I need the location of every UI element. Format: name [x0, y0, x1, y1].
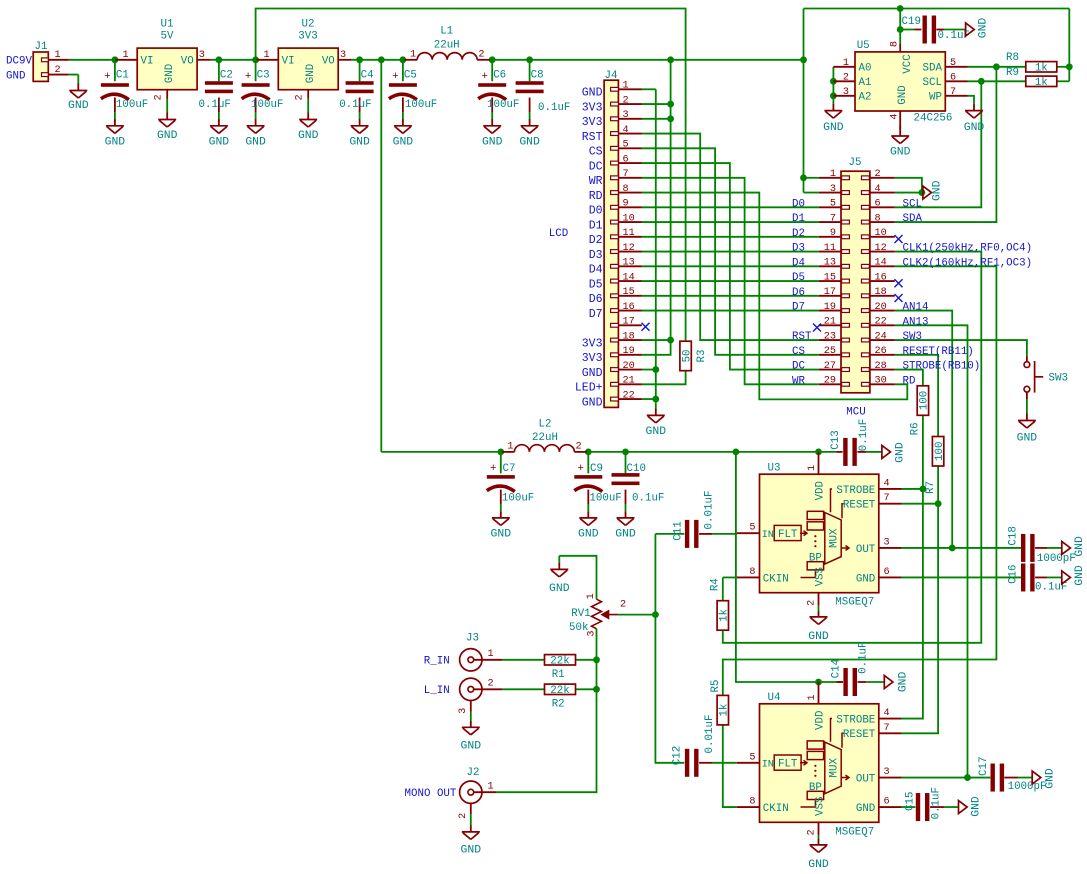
- pin C8.2: [529, 98, 531, 113]
- wire 5V to R3 top: [256, 9, 686, 343]
- wire J1.1 to U1.VI: [69, 59, 116, 61]
- pin pad J4.2: [611, 102, 619, 106]
- pin pad J5.7: [842, 220, 850, 224]
- svg-text:3V3: 3V3: [582, 116, 603, 129]
- pin J5.13: [819, 265, 841, 267]
- potentiometer RV1: [592, 599, 602, 629]
- svg-text:WR: WR: [589, 175, 603, 188]
- svg-text:100uF: 100uF: [487, 99, 519, 111]
- svg-text:GND: GND: [461, 741, 482, 753]
- pin pad J5.11: [842, 250, 850, 254]
- pin J5.26: [870, 354, 895, 356]
- pin pad J5.3: [842, 191, 850, 195]
- svg-text:RD: RD: [903, 375, 916, 387]
- capacitor C17: [991, 764, 995, 792]
- junction: [667, 101, 674, 108]
- svg-text:16: 16: [875, 272, 887, 283]
- pin J4.13: [618, 265, 642, 267]
- ground C8: [521, 126, 539, 134]
- svg-text:GND: GND: [157, 130, 178, 142]
- svg-text:VI: VI: [141, 56, 154, 68]
- svg-text:1: 1: [263, 50, 269, 61]
- svg-text:GND: GND: [615, 529, 636, 541]
- junction: [400, 56, 407, 63]
- pin J4.16: [618, 310, 642, 312]
- svg-text:GND: GND: [1074, 536, 1086, 557]
- pin pad J5.28: [862, 368, 870, 372]
- svg-text:1k: 1k: [719, 609, 731, 622]
- pin pad J5.18: [862, 294, 870, 298]
- junction: [216, 56, 223, 63]
- connector J3: [460, 649, 482, 671]
- pin J5.9: [819, 236, 841, 238]
- pin C4.2: [359, 98, 361, 113]
- pin pad J4.13: [611, 264, 619, 268]
- pin J4.8: [618, 192, 642, 194]
- junction: [252, 56, 259, 63]
- pin C19.2: [936, 29, 944, 31]
- pin J5.19: [819, 310, 841, 312]
- svg-text:19: 19: [623, 346, 635, 357]
- wire DC J4.6 to J5.27: [642, 163, 819, 369]
- pin J5.16: [870, 280, 895, 282]
- pin J4.12: [618, 251, 642, 253]
- svg-text:7: 7: [884, 723, 890, 734]
- regulator U1: [137, 48, 197, 90]
- ground J3: [462, 727, 480, 735]
- svg-text:R7: R7: [925, 481, 937, 494]
- wire J1.2 bend: [69, 74, 79, 76]
- svg-text:100: 100: [934, 442, 946, 461]
- ground C13: [882, 445, 891, 458]
- pin U2.GND: [307, 90, 309, 99]
- svg-text:D5: D5: [792, 272, 805, 284]
- svg-text:1: 1: [807, 694, 818, 700]
- pin C14.2: [858, 681, 867, 683]
- svg-text:26: 26: [875, 346, 887, 357]
- gnd stem J4: [655, 408, 657, 415]
- svg-text:15: 15: [623, 287, 635, 298]
- svg-text:SDA: SDA: [903, 213, 923, 225]
- svg-text:CLK2(160kHz,RF1,OC3): CLK2(160kHz,RF1,OC3): [903, 257, 1033, 269]
- wire C12 to U4.IN: [712, 762, 737, 764]
- svg-text:C7: C7: [503, 463, 516, 475]
- wire D5 J4 to J5: [642, 280, 819, 282]
- svg-text:1000pF: 1000pF: [1008, 781, 1047, 793]
- svg-text:GND: GND: [393, 137, 414, 149]
- pin pad J5.24: [862, 338, 870, 342]
- wire R5 to U4.CKIN: [723, 725, 737, 807]
- svg-text:MUX: MUX: [829, 758, 841, 778]
- junction: [378, 56, 385, 63]
- svg-text:GND: GND: [856, 573, 875, 585]
- junction: [830, 92, 837, 99]
- pin pad J5.5: [842, 205, 850, 209]
- junction: [949, 545, 956, 552]
- wire U5.SCL to R9: [968, 80, 1026, 82]
- pin J4.17: [618, 324, 642, 326]
- junction: [667, 337, 674, 344]
- svg-text:3: 3: [199, 50, 205, 61]
- svg-text:R6: R6: [909, 422, 921, 435]
- pin J5.15: [819, 280, 841, 282]
- svg-text:3V3: 3V3: [582, 352, 603, 365]
- wire 3V3 to R8/R9: [1068, 9, 1070, 82]
- svg-text:U1: U1: [161, 18, 174, 30]
- wire U1.GND: [166, 99, 168, 113]
- ground C5: [394, 126, 412, 134]
- gnd stem C6: [491, 119, 493, 126]
- gnd stem C4: [359, 119, 361, 126]
- svg-text:GND: GND: [895, 442, 907, 463]
- svg-text:9: 9: [830, 228, 836, 239]
- pin J3.1: [474, 659, 503, 661]
- resistor R3: [680, 341, 691, 371]
- pin pad J4.21: [611, 382, 619, 386]
- pin J4.15: [618, 295, 642, 297]
- svg-text:100uF: 100uF: [116, 99, 148, 111]
- svg-text:8: 8: [623, 184, 629, 195]
- junction: [1066, 63, 1073, 70]
- svg-text:C2: C2: [220, 69, 233, 81]
- svg-text:STROBE(RB10): STROBE(RB10): [903, 361, 981, 373]
- pin L2.1: [502, 451, 514, 453]
- pin U5.8: [899, 44, 901, 52]
- wire VCC to C19 node: [899, 9, 901, 45]
- wire to C13: [819, 451, 837, 453]
- junction: [489, 56, 496, 63]
- svg-text:RESET: RESET: [843, 729, 876, 741]
- gnd stem C9: [587, 511, 589, 518]
- svg-text:13: 13: [824, 258, 836, 269]
- connector J5: [841, 171, 870, 393]
- wire 3V3 top right: [804, 8, 1070, 10]
- svg-text:OUT: OUT: [856, 773, 876, 785]
- svg-text:D5: D5: [589, 278, 603, 291]
- pin pad J5.10: [862, 235, 870, 239]
- svg-text:GND: GND: [582, 87, 603, 100]
- svg-text:RV1: RV1: [571, 608, 590, 620]
- pin pad J5.13: [842, 264, 850, 268]
- gnd stem C10: [625, 511, 627, 518]
- svg-text:GND: GND: [1074, 565, 1086, 586]
- pin C19.1: [914, 29, 921, 31]
- junction: [920, 486, 927, 493]
- pin pad J5.29: [842, 382, 850, 386]
- svg-text:GND: GND: [1044, 768, 1056, 789]
- svg-text:100uF: 100uF: [251, 99, 283, 111]
- svg-text:+: +: [392, 71, 398, 83]
- wire J3.2 to R2: [502, 688, 544, 690]
- svg-text:R1: R1: [552, 669, 565, 681]
- pin pad J4.20: [611, 368, 619, 372]
- svg-text:MUX: MUX: [829, 528, 841, 548]
- svg-text:2: 2: [478, 49, 484, 60]
- svg-text:9: 9: [623, 199, 629, 210]
- pin U5.5: [945, 66, 967, 68]
- wire J5.24 to SW3: [895, 340, 1027, 356]
- svg-text:C19: C19: [902, 16, 921, 28]
- svg-text:0.1uF: 0.1uF: [858, 419, 870, 451]
- svg-text:R5: R5: [710, 680, 722, 693]
- ground C16: [1062, 571, 1071, 584]
- svg-text:D7: D7: [792, 302, 805, 314]
- svg-text:3: 3: [586, 630, 597, 636]
- pin J5.7: [819, 221, 841, 223]
- svg-text:21: 21: [824, 317, 836, 328]
- svg-text:CLK1(250kHz,RF0,OC4): CLK1(250kHz,RF0,OC4): [903, 243, 1033, 255]
- wire WR J4.7 to J5.29: [642, 178, 819, 384]
- wire D0 J4 to J5: [642, 206, 819, 208]
- svg-text:3V3: 3V3: [582, 101, 603, 114]
- wire C1 to GND: [114, 112, 116, 119]
- wire rail to C2: [218, 60, 220, 81]
- wire C2 to GND: [218, 112, 220, 119]
- ic U4 MSGEQ7: [760, 704, 879, 823]
- svg-text:J4: J4: [605, 70, 618, 82]
- svg-text:2: 2: [487, 679, 493, 690]
- pin L2.2: [574, 451, 587, 453]
- wire D6 J4 to J5: [642, 295, 819, 297]
- capacitor C11: [685, 520, 689, 548]
- svg-text:1k: 1k: [719, 704, 731, 717]
- svg-text:MONO OUT: MONO OUT: [405, 788, 457, 800]
- svg-text:27: 27: [824, 361, 836, 372]
- wire U5.GND: [899, 126, 901, 130]
- capacitor C2: [205, 81, 233, 85]
- wire RST J4.4 to J5.23: [642, 134, 819, 340]
- svg-text:A1: A1: [859, 77, 872, 89]
- pin SW3.2: [1026, 392, 1028, 399]
- pin pad J5.6: [862, 205, 870, 209]
- svg-text:21: 21: [623, 376, 635, 387]
- pin J4.21: [618, 383, 642, 385]
- pin U5.4: [899, 111, 901, 136]
- pin C13.2: [857, 451, 866, 453]
- svg-text:U2: U2: [302, 18, 315, 30]
- ground C19: [966, 23, 975, 36]
- pin J5.4: [870, 192, 895, 194]
- pin U1.VO: [197, 59, 211, 61]
- svg-text:22uH: 22uH: [532, 432, 558, 444]
- wire audio node down to C12: [655, 534, 684, 763]
- svg-text:C11: C11: [672, 521, 684, 540]
- svg-text:C14: C14: [831, 659, 843, 678]
- svg-text:J5: J5: [849, 157, 862, 169]
- wire AN13 J5.22 to U4.OUT: [895, 325, 968, 777]
- svg-text:10: 10: [875, 228, 887, 239]
- svg-text:GND: GND: [549, 583, 570, 595]
- svg-text:4: 4: [884, 708, 890, 719]
- gnd stem RV1: [558, 563, 560, 569]
- svg-text:U4: U4: [768, 692, 781, 704]
- wire C6 to GND: [491, 112, 493, 119]
- connector J4: [604, 80, 618, 407]
- svg-text:R2: R2: [552, 699, 565, 711]
- junction: [897, 26, 904, 33]
- pin J5.3: [819, 192, 841, 194]
- svg-text:0.1uF: 0.1uF: [931, 787, 943, 819]
- pin L1.2: [477, 59, 490, 61]
- svg-text:LCD: LCD: [549, 228, 568, 240]
- svg-text:R4: R4: [710, 578, 722, 591]
- wire C3 to GND: [255, 112, 257, 119]
- svg-text:VO: VO: [322, 56, 335, 68]
- pin J4.7: [618, 177, 642, 179]
- svg-text:1: 1: [807, 465, 818, 471]
- svg-text:2: 2: [623, 95, 629, 106]
- resistor R4: [717, 601, 728, 631]
- svg-text:20: 20: [623, 361, 635, 372]
- svg-text:+: +: [578, 463, 584, 475]
- wire J5.4 to GND: [895, 192, 922, 194]
- pin pad J5.23: [842, 338, 850, 342]
- gnd stem J3: [470, 721, 472, 727]
- junction: [815, 679, 822, 686]
- pin pad J4.17: [611, 323, 619, 327]
- svg-text:VDD: VDD: [815, 711, 827, 730]
- ground U5 WP: [965, 111, 983, 119]
- svg-text:0.01uF: 0.01uF: [704, 715, 716, 754]
- svg-text:16: 16: [623, 302, 635, 313]
- svg-text:GND: GND: [808, 631, 829, 643]
- svg-text:2: 2: [843, 73, 849, 84]
- pin U4.2 VSS: [818, 822, 820, 835]
- svg-text:CS: CS: [792, 346, 805, 358]
- ground C17: [1032, 771, 1041, 784]
- wire U3.OUT to C18: [901, 547, 1021, 549]
- svg-text:19: 19: [824, 302, 836, 313]
- wire J4.18: [642, 339, 671, 341]
- svg-text:4: 4: [623, 125, 629, 136]
- svg-text:GND: GND: [964, 122, 985, 134]
- svg-text:VCC: VCC: [902, 54, 914, 74]
- svg-text:MSGEQ7: MSGEQ7: [835, 597, 874, 609]
- pin J5.18: [870, 295, 895, 297]
- capacitor C1: [101, 83, 129, 87]
- pin pad J4.15: [611, 294, 619, 298]
- svg-text:3: 3: [623, 110, 629, 121]
- junction: [919, 189, 926, 196]
- svg-text:2: 2: [875, 169, 881, 180]
- svg-text:23: 23: [824, 331, 836, 342]
- ground U4 VSS: [810, 845, 828, 853]
- svg-text:WR: WR: [792, 375, 805, 387]
- svg-text:6: 6: [875, 199, 881, 210]
- inductor L2: [514, 445, 574, 452]
- wire R9 to 3V3: [1057, 80, 1070, 82]
- wire C10 to GND: [625, 504, 627, 511]
- wire C14 to GND: [866, 681, 884, 683]
- svg-text:GND: GND: [582, 396, 603, 409]
- svg-text:C4: C4: [361, 69, 374, 81]
- svg-text:7: 7: [830, 213, 836, 224]
- svg-text:GND: GND: [977, 18, 989, 39]
- svg-text:22: 22: [623, 390, 635, 401]
- pin J4.10: [618, 221, 642, 223]
- wire R8 to 3V3: [1057, 66, 1070, 68]
- inductor L1: [417, 53, 477, 60]
- ground C7: [492, 518, 510, 526]
- wire C13 to GND: [866, 451, 882, 453]
- pin pad J4.9: [611, 205, 619, 209]
- svg-text:1: 1: [830, 169, 836, 180]
- svg-text:C15: C15: [904, 792, 916, 811]
- junction: [112, 56, 119, 63]
- pin C16.2: [1035, 576, 1047, 578]
- svg-text:28: 28: [875, 361, 887, 372]
- svg-text:LED+: LED+: [575, 382, 603, 395]
- pin U5.3: [833, 95, 855, 97]
- svg-text:GND: GND: [582, 367, 603, 380]
- ground C3: [247, 126, 265, 134]
- svg-text:2: 2: [620, 599, 626, 610]
- wire rail to C4: [359, 60, 361, 81]
- svg-text:5V: 5V: [161, 31, 174, 43]
- pin J4.18: [618, 339, 642, 341]
- svg-text:STROBE: STROBE: [836, 714, 875, 726]
- svg-text:18: 18: [875, 287, 887, 298]
- pin pad J5.21: [842, 323, 850, 327]
- svg-text:17: 17: [623, 317, 635, 328]
- svg-text:D6: D6: [792, 287, 805, 299]
- wire rail to C1: [114, 60, 116, 81]
- pin J2.2: [470, 803, 472, 814]
- capacitor C7: [487, 475, 515, 479]
- svg-text:5: 5: [749, 752, 755, 763]
- ground SW3: [1018, 421, 1036, 429]
- capacitor C18: [1021, 534, 1025, 562]
- pin U3.7: [879, 503, 902, 505]
- svg-text:GND: GND: [491, 529, 512, 541]
- pin U3.2 VSS: [818, 593, 820, 606]
- svg-text:8: 8: [875, 213, 881, 224]
- svg-text:GND: GND: [897, 85, 909, 104]
- pin U3.8 CKIN: [737, 576, 760, 578]
- svg-text:50: 50: [681, 349, 693, 362]
- wire J4.22: [642, 398, 656, 400]
- svg-text:FLT: FLT: [778, 529, 798, 541]
- capacitor C10: [612, 473, 640, 477]
- svg-text:C10: C10: [627, 463, 646, 475]
- svg-text:SCL: SCL: [923, 77, 942, 89]
- pin J5.23: [819, 339, 841, 341]
- wire R7 to U4.RESET: [901, 466, 938, 733]
- capacitor C16: [1021, 563, 1025, 591]
- no-connect J4.17: [642, 323, 650, 331]
- svg-text:24C256: 24C256: [914, 113, 953, 125]
- svg-text:1: 1: [487, 649, 493, 660]
- svg-text:GND: GND: [646, 426, 667, 438]
- wire rail to C5: [402, 60, 404, 81]
- svg-text:100uF: 100uF: [405, 99, 437, 111]
- svg-text:7: 7: [950, 87, 956, 98]
- svg-text:5: 5: [830, 199, 836, 210]
- svg-text:8: 8: [890, 41, 901, 47]
- pin pad J5.26: [862, 353, 870, 357]
- wire D7 J4 to J5: [642, 310, 819, 312]
- svg-text:GND: GND: [932, 180, 944, 201]
- svg-text:GND: GND: [6, 70, 25, 82]
- svg-text:100uF: 100uF: [502, 493, 534, 505]
- svg-text:1000pF: 1000pF: [1037, 553, 1076, 565]
- junction: [652, 611, 659, 618]
- wire RV1 wiper to node: [618, 614, 656, 616]
- wire rail to C10: [625, 452, 627, 473]
- svg-text:GND: GND: [349, 137, 370, 149]
- svg-text:J3: J3: [466, 632, 479, 644]
- pin U5.1: [833, 66, 855, 68]
